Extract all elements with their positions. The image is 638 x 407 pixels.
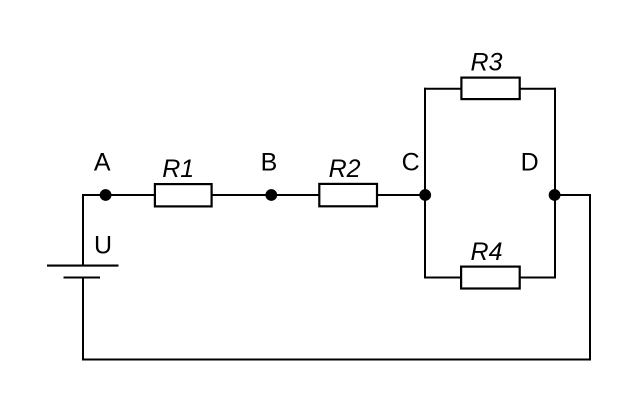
wire: parallel-section bottom branch horizontal <box>424 277 556 279</box>
battery U: long top plate <box>47 265 119 267</box>
node B <box>265 189 277 201</box>
wire: parallel-section right vertical through node D <box>554 88 556 279</box>
resistor R3 <box>461 78 519 100</box>
svg-text:D: D <box>521 149 539 177</box>
svg-text:C: C <box>402 149 420 177</box>
wire: horizontal from node D to right vertical <box>554 194 591 196</box>
svg-text:B: B <box>261 148 278 176</box>
node D <box>549 189 561 201</box>
wire: vertical from battery bottom plate down to bottom rail <box>82 278 84 361</box>
svg-text:R3: R3 <box>471 49 503 77</box>
wire: right vertical from bottom rail up to D level <box>589 194 591 361</box>
wire: left vertical from corner down to battery top plate <box>83 195 84 265</box>
resistor R1 <box>155 184 212 206</box>
svg-text:U: U <box>94 232 112 260</box>
svg-text:R4: R4 <box>471 238 503 266</box>
node C <box>419 189 431 201</box>
resistor R2 <box>319 184 377 206</box>
svg-text:R1: R1 <box>162 155 194 183</box>
wire: bottom rail <box>82 359 591 361</box>
wire: parallel-section left vertical through node C <box>424 88 426 279</box>
wire: main horizontal from left corner through A, R1, B, R2 to C <box>83 194 425 196</box>
node A <box>100 189 112 201</box>
battery U: short bottom plate <box>64 276 101 278</box>
svg-text:A: A <box>94 149 111 177</box>
svg-text:R2: R2 <box>329 155 361 183</box>
wire: parallel-section top branch horizontal <box>424 88 556 90</box>
resistor R4 <box>461 267 520 289</box>
